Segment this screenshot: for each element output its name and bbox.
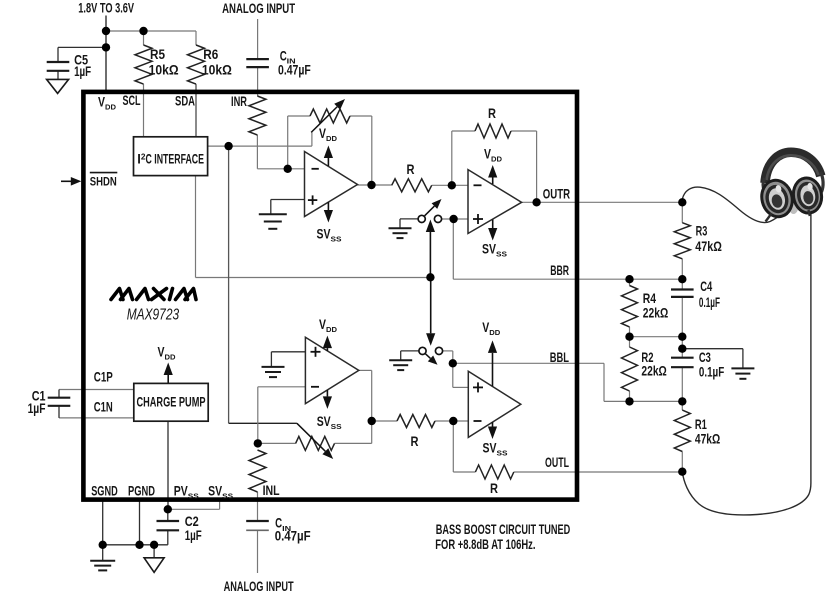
wire pot P1 left lead	[288, 115, 310, 117]
svg-text:ANALOG INPUT: ANALOG INPUT	[222, 0, 295, 16]
ground bars at U1 plus input	[259, 213, 287, 215]
node U2 inverting input	[448, 181, 456, 189]
wire resistor R to op-amp U2 inverting input	[432, 184, 468, 186]
MAX9723 chip boundary box	[83, 92, 577, 500]
switch S2 contacts	[419, 347, 426, 354]
node S2 BBL junction	[449, 359, 457, 367]
potentiometer P2	[296, 436, 335, 450]
wire node R4-C4 bottom	[630, 336, 683, 338]
svg-text:R4: R4	[643, 290, 656, 306]
ground bars at U3 plus input	[262, 366, 285, 368]
wire SVSS pin to C2 node	[219, 500, 221, 509]
wire volume control vertical	[228, 146, 230, 423]
node BBL at R2	[625, 397, 633, 405]
wire BBR net from U2 noninverting input	[452, 219, 454, 279]
node U2 output OUTR	[532, 198, 540, 206]
wire INR resistor bottom lead to op-amp U1 inverting input	[256, 135, 258, 169]
svg-text:1µF: 1µF	[74, 63, 91, 79]
resistor INR input	[249, 96, 266, 135]
node OUTR external	[678, 198, 686, 206]
I2C interface block	[134, 137, 208, 176]
svg-text:1µF: 1µF	[185, 527, 202, 543]
wire CIN lower to analog input	[257, 530, 259, 573]
power ground triangle below C2 rail	[144, 558, 164, 573]
resistor R between U1 and U2	[392, 179, 432, 192]
ground bars at S1	[389, 227, 412, 229]
wire CIN to INR pin	[257, 67, 259, 96]
headphone cable from OUTR	[682, 187, 786, 223]
wire ground rail to power-ground triangle	[153, 545, 155, 558]
svg-text:MAX9723: MAX9723	[127, 306, 179, 323]
wire INL pin to CIN lower	[257, 492, 259, 521]
wire switch S2 to BBL node	[443, 350, 453, 352]
node R4-C4 bottom left	[625, 333, 633, 341]
svg-text:SCL: SCL	[123, 92, 141, 108]
wire supply vertical 1.8V-3.6V to VDD pin	[105, 16, 107, 93]
svg-text:0.1µF: 0.1µF	[699, 364, 725, 380]
node R5 top	[139, 27, 147, 35]
resistor R4 22k	[622, 286, 638, 327]
capacitor C2 1uF	[157, 520, 180, 522]
wire op-amp U1 output to resistor R	[358, 184, 392, 186]
U3 noninverting input plus sign	[311, 351, 321, 353]
svg-text:0.47µF: 0.47µF	[275, 528, 311, 544]
wire R5 top lead	[143, 31, 145, 45]
svg-text:INR: INR	[231, 93, 247, 109]
wire feedback resistor R of U2 left lead	[452, 130, 475, 132]
switch S1 contacts	[418, 215, 425, 222]
op-amp U4	[468, 371, 521, 437]
wire op-amp U1 noninverting input to ground	[271, 199, 305, 201]
bass boost control up arrow	[429, 232, 431, 277]
node R4-C4 bottom right	[678, 333, 686, 341]
svg-text:FOR +8.8dB AT 106Hz.: FOR +8.8dB AT 106Hz.	[435, 536, 535, 552]
wire R3 leads	[681, 202, 683, 222]
wire C1 to charge pump C1P	[59, 389, 134, 391]
svg-text:1.8V TO 3.6V: 1.8V TO 3.6V	[78, 0, 134, 16]
svg-text:BASS BOOST CIRCUIT TUNED: BASS BOOST CIRCUIT TUNED	[436, 521, 571, 537]
node U4 inverting input	[449, 417, 457, 425]
U4 SVSS arrow	[492, 422, 494, 427]
U4 VDD arrow	[492, 353, 494, 386]
wire charge pump to PVSS pin	[167, 421, 169, 509]
U3 SVSS arrow	[326, 390, 328, 396]
svg-text:CHARGE PUMP: CHARGE PUMP	[137, 395, 206, 410]
wire U4 feedback to OUTL	[452, 421, 454, 472]
node BBR at C4	[678, 275, 686, 283]
svg-text:C4: C4	[700, 278, 712, 294]
SHDN input arrow	[61, 180, 72, 182]
svg-text:22kΩ: 22kΩ	[641, 362, 666, 378]
svg-text:R: R	[407, 161, 415, 177]
U1 noninverting input plus sign	[308, 199, 317, 201]
resistor R2 22k	[622, 347, 638, 391]
svg-text:C1P: C1P	[94, 369, 113, 385]
node supply junction	[102, 27, 110, 35]
svg-text:10kΩ: 10kΩ	[149, 62, 179, 78]
headphones icon	[758, 152, 824, 221]
svg-text:ANALOG INPUT: ANALOG INPUT	[224, 578, 294, 594]
U1 inverting input minus sign	[312, 168, 319, 170]
svg-text:PGND: PGND	[128, 483, 155, 499]
svg-text:0.1µF: 0.1µF	[699, 294, 720, 310]
capacitor CIN lower 0.47uF	[246, 520, 269, 522]
wire switch S1 to ground	[400, 218, 418, 220]
svg-text:C3: C3	[699, 349, 711, 365]
svg-text:10kΩ: 10kΩ	[202, 62, 232, 78]
wire bass-boost control line from I2C	[195, 176, 197, 278]
wire SDA from R6 to I2C interface	[195, 84, 197, 137]
node U1 output	[367, 181, 375, 189]
node S1 to U2 plus	[449, 215, 457, 223]
switch S1 lever arrow	[425, 206, 435, 216]
wire U3 output to lower resistor R	[372, 420, 397, 422]
U4 inverting input minus sign	[474, 420, 482, 422]
wire switch S2 to ground	[401, 350, 419, 352]
svg-text:INL: INL	[263, 482, 280, 498]
svg-text:1µF: 1µF	[28, 400, 46, 416]
wire SCL from R5 to I2C interface	[143, 84, 145, 137]
svg-text:OUTL: OUTL	[545, 454, 569, 470]
U4 noninverting input plus sign	[473, 386, 483, 388]
wire C2 top	[167, 509, 169, 521]
wire R6 top lead	[195, 31, 197, 45]
node PGND rail	[135, 541, 143, 549]
op-amp U2	[468, 170, 522, 234]
wire C5 branch	[58, 46, 106, 48]
wire feedback resistor R of U2 right lead	[511, 130, 537, 132]
headphone cable from OUTL	[682, 212, 811, 515]
ground bars at S2	[389, 359, 412, 361]
capacitor C4 0.1uF	[671, 288, 694, 290]
earth ground below SGND	[90, 560, 115, 562]
wire lower resistor R to U4 inverting input	[435, 420, 468, 422]
wire C1 to charge pump C1N	[59, 417, 134, 419]
node U1 inverting input junction	[284, 165, 292, 173]
capacitor C1 1uF	[48, 397, 71, 399]
svg-text:R: R	[488, 105, 496, 121]
node BBR at R4	[625, 275, 633, 283]
ground triangle below C5	[47, 79, 69, 93]
wire BBL to U4 noninverting input	[452, 363, 454, 387]
node BBL at C3	[678, 397, 686, 405]
capacitor C5 1uF	[47, 61, 70, 63]
wire R2 leads	[629, 337, 631, 347]
MAXIM logo	[111, 289, 196, 300]
svg-text:SGND: SGND	[91, 483, 118, 499]
P1 wiper arrow	[311, 107, 337, 133]
svg-text:R: R	[411, 433, 419, 449]
svg-text:22kΩ: 22kΩ	[643, 305, 668, 321]
bass boost control down arrow	[430, 277, 432, 333]
resistor R3 47k	[674, 223, 690, 259]
resistor R5 10k	[135, 45, 152, 84]
feedback resistor R of U2	[475, 124, 511, 138]
charge pump VDD arrow	[167, 375, 169, 383]
svg-text:R5: R5	[150, 46, 165, 62]
node PVSS-SVSS-C2	[164, 505, 172, 513]
svg-text:BBR: BBR	[550, 262, 569, 278]
wire R1 leads	[681, 401, 683, 410]
wire R4 leads	[629, 279, 631, 285]
wire OUTL output line	[514, 471, 683, 473]
wire C4 leads	[681, 279, 683, 289]
svg-text:R6: R6	[203, 46, 218, 62]
wire op-amp U3 noninverting input to ground	[271, 351, 305, 353]
U3 inverting input minus sign	[311, 386, 319, 388]
wire C3 top to external ground	[682, 348, 743, 350]
svg-text:R1: R1	[695, 416, 707, 432]
resistor R1 47k	[674, 410, 690, 451]
wire SGND pin down	[102, 500, 104, 545]
node bass-boost arrows junction	[426, 273, 434, 281]
op-amp U1	[305, 152, 358, 217]
U2 SVSS arrow	[492, 220, 494, 229]
potentiometer P1 volume	[310, 109, 350, 123]
svg-text:0.47µF: 0.47µF	[278, 62, 311, 78]
svg-text:I2C INTERFACE: I2C INTERFACE	[137, 152, 204, 167]
svg-text:47kΩ: 47kΩ	[695, 238, 722, 254]
U1 SVSS arrow	[327, 202, 329, 210]
svg-text:R: R	[490, 480, 498, 496]
wire PGND pin down	[139, 500, 141, 545]
node OUTL external	[678, 468, 686, 476]
svg-text:47kΩ: 47kΩ	[695, 431, 720, 447]
resistor R6 10k	[188, 45, 205, 84]
U2 VDD arrow	[492, 178, 494, 185]
wire C3 plates leads	[681, 349, 683, 358]
U2 inverting input minus sign	[474, 184, 482, 186]
svg-text:BBL: BBL	[550, 349, 569, 365]
wire op-amp U3 inverting input	[258, 386, 306, 388]
U2 noninverting input plus sign	[473, 218, 483, 220]
node SGND rail	[99, 541, 107, 549]
switch S2 lever arrow	[425, 354, 430, 359]
node U3 input pot junction	[254, 439, 262, 447]
wire BBL output line	[453, 362, 604, 364]
op-amp U3	[305, 337, 358, 403]
wire pot P2 right lead / U3 output	[335, 442, 372, 444]
wire I2C interface output to volume wiper node	[208, 145, 312, 147]
P2 wiper arrow	[297, 423, 325, 451]
resistor R between U3 and U4	[397, 415, 435, 428]
wire analog input right to CIN	[257, 19, 259, 59]
capacitor CIN upper 0.47uF	[246, 58, 269, 60]
ground bars external at C3	[731, 367, 754, 369]
svg-text:R3: R3	[696, 223, 708, 239]
feedback resistor R of U4	[475, 465, 513, 479]
wire pot P2 left lead	[258, 442, 296, 444]
wire pot P1 right lead	[350, 115, 372, 117]
svg-text:OUTR: OUTR	[543, 186, 570, 202]
U1 VDD arrow	[327, 158, 329, 166]
wire supply horizontal to R5 R6 tops	[106, 30, 196, 32]
svg-text:C1N: C1N	[94, 399, 113, 415]
node C3 top tap	[678, 345, 686, 353]
U3 VDD arrow	[326, 348, 328, 351]
node U3 output	[368, 417, 376, 425]
charge pump block	[134, 383, 208, 421]
resistor INL input	[249, 450, 266, 492]
wire OUTR output line	[522, 201, 683, 203]
node triangle ground rail	[150, 541, 158, 549]
svg-text:SDA: SDA	[175, 93, 195, 109]
wire C2 bottom to ground rail	[167, 530, 169, 545]
svg-text:SHDN: SHDN	[90, 175, 117, 189]
node I2C output junction	[224, 142, 232, 150]
capacitor C3 0.1uF	[671, 357, 694, 359]
wire switch S1 to U2 noninverting input	[442, 218, 468, 220]
